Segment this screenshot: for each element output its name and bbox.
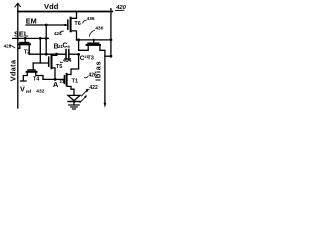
wire EM line: [26, 24, 68, 26]
node C junction: [77, 53, 80, 56]
svg-text:T4: T4: [33, 77, 39, 83]
svg-text:ref: ref: [26, 89, 32, 94]
svg-text:V: V: [20, 85, 25, 94]
transistor T6: [67, 20, 69, 29]
svg-text:434: 434: [63, 58, 72, 64]
junction dot EM/T6 gate: [64, 24, 66, 26]
svg-text:s: s: [67, 45, 70, 50]
label 422: [89, 85, 98, 91]
node EM label: [26, 17, 37, 26]
label 420: [115, 5, 126, 11]
node Vdata label: [8, 59, 17, 81]
wire B column (EM to B wire): [45, 25, 47, 54]
label 430: [95, 26, 103, 32]
svg-text:EM: EM: [26, 17, 37, 26]
junction dots on SEL: [17, 37, 19, 39]
node Vdd label: [44, 2, 59, 11]
wire Vdata top end-bar: [15, 3, 21, 7]
svg-text:428: 428: [4, 43, 12, 48]
ground symbol: [69, 104, 79, 106]
transistor T3: [93, 40, 95, 43]
wire SEL branch column: [39, 38, 41, 63]
svg-text:426: 426: [89, 73, 98, 79]
LED emission arrows: [82, 90, 88, 96]
wire SEL line: [13, 37, 49, 39]
svg-text:Vdata: Vdata: [8, 59, 17, 81]
wire T4/T5 gate branch: [33, 62, 49, 64]
svg-text:T5: T5: [56, 64, 63, 70]
wire node A row: [43, 78, 64, 80]
label 434: [63, 58, 72, 64]
Ibias arrowhead: [104, 103, 107, 108]
wire node C row: [77, 39, 111, 41]
svg-text:T3: T3: [87, 55, 94, 61]
wire node B row: [29, 53, 66, 55]
svg-text:T1: T1: [72, 78, 79, 84]
label 426: [89, 73, 98, 79]
transistor T1: [63, 76, 65, 84]
junction dot EM/B-column: [45, 24, 48, 27]
node Ibias label: [94, 61, 103, 81]
svg-text:422: 422: [89, 85, 98, 91]
svg-text:436: 436: [87, 16, 95, 22]
diode OLED: [68, 95, 80, 100]
svg-text:432: 432: [36, 89, 44, 95]
node B label: [54, 41, 64, 50]
terminal Vref end-bar: [21, 80, 27, 82]
node SEL label: [14, 30, 29, 39]
node A label: [53, 79, 65, 89]
transistor T4: [32, 63, 34, 69]
svg-text:SEL: SEL: [14, 30, 29, 39]
label 428: [4, 43, 12, 48]
label 424: [54, 31, 62, 36]
svg-text:430: 430: [95, 26, 103, 32]
transistor T5: [48, 57, 50, 66]
wire Vdata column: [17, 4, 19, 108]
capacitor Cs: [65, 50, 67, 60]
node Vref label: [20, 85, 45, 95]
svg-text:A: A: [53, 80, 59, 89]
label 436: [87, 16, 95, 22]
svg-text:Vdd: Vdd: [44, 2, 59, 11]
wire Vdd rail: [18, 11, 113, 13]
svg-text:T6: T6: [74, 21, 81, 27]
wire Ibias column: [110, 9, 112, 57]
transistor T2: [24, 38, 26, 42]
